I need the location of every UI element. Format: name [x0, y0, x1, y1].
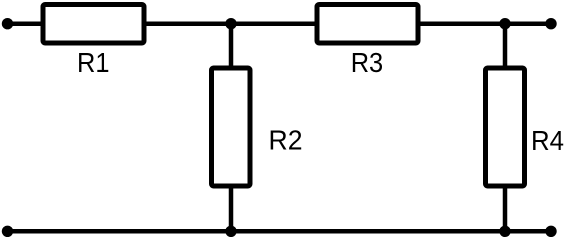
resistor R1 [43, 5, 144, 44]
node junction bottom-middle [225, 226, 236, 237]
terminal top-right [545, 18, 556, 29]
node junction bottom-right [499, 226, 510, 237]
svg-text:R4: R4 [531, 125, 564, 156]
wire R4 branch [503, 24, 508, 232]
wire bottom rail [8, 229, 552, 234]
terminal bottom-right [545, 226, 556, 237]
resistor R3 [317, 5, 418, 44]
svg-text:R2: R2 [269, 124, 303, 155]
node junction top-middle [225, 18, 236, 29]
terminal bottom-left [2, 226, 13, 237]
wire top rail [8, 21, 552, 26]
node junction top-right [499, 18, 510, 29]
wire R2 branch [229, 24, 234, 232]
svg-text:R3: R3 [351, 47, 384, 78]
svg-text:R1: R1 [77, 47, 110, 78]
resistor R4 [486, 68, 525, 186]
terminal top-left [2, 18, 13, 29]
resistor R2 [212, 68, 251, 186]
